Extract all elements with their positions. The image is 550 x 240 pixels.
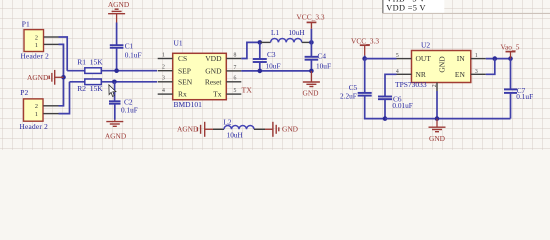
U1 pin 4 (158, 88, 173, 94)
svg-text:C1: C1 (125, 42, 134, 51)
junction C3 bottom (258, 69, 263, 74)
mouse cursor (109, 85, 116, 97)
svg-text:0.1uF: 0.1uF (121, 105, 138, 114)
power port GND (below C4) (302, 71, 319, 98)
svg-text:2.2uF: 2.2uF (340, 92, 357, 101)
svg-text:2: 2 (162, 65, 165, 71)
U1 pin 5 (226, 88, 241, 94)
svg-text:OUT: OUT (416, 54, 432, 63)
svg-text:TX: TX (242, 85, 253, 94)
svg-text:0.1uF: 0.1uF (125, 50, 142, 59)
svg-text:NR: NR (416, 70, 426, 79)
svg-text:VDD: VDD (205, 54, 222, 63)
svg-text:Header 2: Header 2 (21, 51, 50, 60)
capacitor C2 0.1uF (109, 97, 138, 114)
inductor L1 10uH (260, 28, 311, 43)
svg-text:CS: CS (178, 54, 187, 63)
svg-text:10uF: 10uF (316, 62, 331, 71)
svg-text:5: 5 (234, 88, 237, 94)
svg-text:5: 5 (396, 53, 399, 59)
P1 pin 1 stub (44, 43, 59, 45)
wire P1.1 down to P2.2 (AGND net vertical) (59, 44, 64, 105)
connector P1 (21, 20, 50, 61)
capacitor C5 2.2uF (340, 83, 372, 101)
svg-text:P2: P2 (20, 88, 28, 97)
wire EN up to IN line (486, 59, 495, 75)
inductor L2 10uH (213, 117, 265, 139)
wire U1 pin7 line to GND column (241, 70, 311, 72)
power port VCC_3.3 (left of U2) (351, 37, 379, 56)
svg-text:10uH: 10uH (288, 28, 305, 37)
IC U1 BMD101 (173, 38, 227, 109)
U1 pin 3 (158, 76, 173, 82)
svg-text:Header 2: Header 2 (20, 122, 49, 131)
junction VCC/C5/OUT (362, 56, 367, 61)
svg-text:Vao_5: Vao_5 (501, 43, 520, 52)
wire C2 to AGND (114, 104, 116, 120)
svg-text:AGND: AGND (108, 0, 130, 9)
junction C1/R1 line (114, 68, 119, 73)
U2 pin 1 (471, 53, 486, 59)
resistor R1 15K (77, 58, 103, 74)
svg-text:TPS73033: TPS73033 (395, 80, 427, 89)
capacitor C3 10uF (253, 50, 281, 70)
junction AGND tap (61, 75, 66, 80)
note box VDD (383, 0, 444, 13)
power port Vao_5 (501, 43, 520, 59)
power port VCC_3.3 (over L1) (296, 12, 324, 29)
capacitor C4 10uF (305, 52, 331, 71)
power port AGND (top, above C1) (108, 0, 130, 23)
svg-text:1: 1 (35, 42, 38, 49)
svg-text:U1: U1 (174, 38, 183, 47)
junction EN riser (493, 56, 498, 61)
junction C6/bus (383, 116, 388, 121)
wire R2 line to C2 (114, 82, 116, 101)
svg-text:U2: U2 (421, 41, 430, 50)
P2 pin 1 stub (43, 113, 58, 115)
wire AGND to C1 (116, 23, 118, 46)
wire U1 pin8 up to L1 line (241, 42, 260, 58)
svg-text:P1: P1 (22, 20, 30, 29)
svg-text:C3: C3 (267, 50, 276, 59)
svg-text:VCC_3.3: VCC_3.3 (351, 37, 379, 46)
svg-text:0.1uF: 0.1uF (516, 92, 533, 101)
svg-text:10uF: 10uF (266, 61, 281, 70)
svg-text:BMD101: BMD101 (174, 100, 203, 109)
svg-text:2: 2 (432, 84, 438, 87)
annotation line (top right) (383, 12, 550, 14)
svg-text:8: 8 (234, 52, 237, 58)
junction U2 GND/bus (435, 116, 440, 121)
svg-text:VDD =5 V: VDD =5 V (386, 3, 426, 12)
power port AGND (below C2) (105, 120, 127, 141)
wire P2.1 up to R2 line (59, 82, 70, 114)
svg-text:AGND: AGND (177, 125, 199, 134)
P1 pin 2 stub (44, 36, 59, 38)
power port AGND (L2 row, left) (177, 122, 213, 137)
junction L1/VCC/C4 (309, 40, 314, 45)
svg-text:GND: GND (302, 88, 319, 97)
svg-text:2: 2 (35, 103, 38, 110)
power port AGND (left) (27, 70, 64, 85)
svg-text:AGND: AGND (27, 73, 49, 82)
svg-text:Rx: Rx (178, 90, 187, 99)
U1 pin 6 (226, 76, 241, 82)
wire C6 arm bottom (384, 99, 386, 118)
junction Vao_5 column (508, 56, 513, 61)
wire C4 arm bottom (310, 60, 312, 71)
connector P2 (20, 88, 49, 131)
resistor R2 15K (77, 79, 103, 93)
capacitor C7 0.1uF (504, 86, 533, 101)
wire P1.2 to R1 line (59, 37, 68, 71)
svg-text:L2: L2 (223, 117, 231, 126)
junction C3 top (258, 40, 263, 45)
svg-text:1: 1 (35, 111, 38, 118)
U1 pin 1 (158, 52, 173, 58)
P2 pin 2 stub (43, 105, 58, 107)
wire VCC_3.3 to OUT line (364, 56, 366, 59)
ground bus wire (385, 118, 511, 120)
wire C5 arm bottom to bus (365, 96, 385, 119)
svg-text:2: 2 (35, 34, 38, 41)
svg-text:EN: EN (455, 70, 466, 79)
wire C5 arm top (364, 59, 366, 93)
svg-text:R1 15K: R1 15K (77, 58, 103, 67)
capacitor C1 0.1uF (110, 42, 142, 60)
U2 pin 2 (GND) (432, 83, 438, 92)
wire C7 arm top (510, 59, 512, 90)
svg-text:C4: C4 (318, 52, 327, 61)
svg-text:Reset: Reset (205, 77, 223, 86)
wire VCC_3.3 to L1 junction (310, 29, 312, 43)
wire C4 arm top (310, 42, 312, 56)
U1 pin 7 (226, 65, 241, 71)
svg-text:AGND: AGND (105, 132, 127, 141)
svg-text:Tx: Tx (213, 90, 222, 99)
svg-text:GND: GND (282, 125, 299, 134)
wire C3 arm bottom (259, 62, 261, 71)
capacitor C6 0.01uF (378, 95, 413, 110)
svg-text:3: 3 (162, 76, 165, 82)
U1 pin 2 (158, 65, 173, 71)
wire C3 arm top (259, 42, 261, 58)
svg-text:GND: GND (437, 56, 446, 73)
wire R1 line to U1 pin2 (67, 70, 157, 72)
wire OUT line (365, 58, 397, 60)
svg-text:0.01uF: 0.01uF (392, 101, 412, 110)
wire NR to C6 (385, 74, 397, 96)
wire C1 to R1 line (116, 48, 118, 71)
svg-text:7: 7 (234, 65, 237, 71)
svg-text:GND: GND (429, 134, 446, 143)
wire U2 IN to Vao_5 junctions (486, 58, 511, 60)
junction C4 bottom / GND (309, 69, 314, 74)
svg-text:1: 1 (162, 52, 165, 58)
svg-text:6: 6 (234, 76, 237, 82)
svg-text:VCC_3.3: VCC_3.3 (296, 12, 324, 21)
U1 pin 8 (226, 52, 241, 58)
svg-text:GND: GND (205, 66, 222, 75)
wire C7 arm bottom to bus (510, 93, 512, 119)
svg-text:SEP: SEP (178, 66, 191, 75)
svg-text:SEN: SEN (178, 77, 193, 86)
svg-text:L1: L1 (271, 28, 279, 37)
svg-text:1: 1 (475, 53, 478, 59)
U2 pin 5 (396, 53, 412, 59)
power port GND (below U2) (429, 119, 446, 143)
svg-text:10uH: 10uH (227, 130, 244, 139)
svg-text:4: 4 (162, 88, 165, 94)
svg-text:3: 3 (475, 69, 478, 75)
IC U2 TPS73033 (395, 41, 471, 89)
U2 pin 3 (471, 69, 486, 75)
wire R2 line to U1 pin3 (70, 81, 158, 83)
junction C2/R2 line (112, 80, 117, 85)
svg-text:R2 15K: R2 15K (77, 84, 103, 93)
svg-text:IN: IN (457, 54, 465, 63)
power port GND (L2 row, right) (265, 122, 299, 137)
wire U2 GND pin to bus (436, 91, 438, 119)
U2 pin 4 (396, 69, 412, 75)
